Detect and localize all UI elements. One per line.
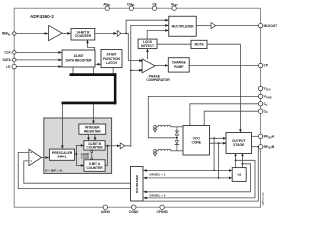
wire V_TUNE bbox=[148, 96, 258, 137]
13-bit B counter bbox=[84, 141, 105, 150]
prescaler bbox=[49, 149, 74, 160]
label DIVSEL = 1 bbox=[149, 172, 172, 177]
svg-text:VCO: VCO bbox=[266, 90, 271, 92]
pin AGND bbox=[103, 205, 107, 209]
VCO core bbox=[183, 126, 210, 156]
svg-text:STAGE: STAGE bbox=[233, 143, 245, 147]
lock detect bbox=[138, 39, 157, 49]
buffer U1 (reference input) bbox=[49, 25, 63, 40]
pin CP bbox=[258, 63, 262, 67]
wire C_C bbox=[190, 104, 259, 125]
wire CLK bbox=[16, 51, 61, 53]
thick data bus bbox=[70, 73, 117, 76]
svg-text:DETECT: DETECT bbox=[141, 44, 155, 48]
wire register stub to bus bbox=[72, 67, 74, 73]
svg-text:COUNTER: COUNTER bbox=[86, 166, 103, 170]
wire tap2 down bbox=[218, 143, 220, 178]
svg-text:COUNTER: COUNTER bbox=[75, 34, 92, 38]
varactor diodes bbox=[176, 127, 178, 131]
svg-text:CPGND: CPGND bbox=[156, 210, 168, 214]
wire register to function latch bbox=[95, 63, 100, 65]
tank top: ground, inductor L1 bbox=[154, 126, 157, 129]
svg-text:LOAD: LOAD bbox=[81, 156, 89, 160]
node R branch bbox=[125, 33, 127, 35]
feedback buffer triangle bbox=[29, 149, 42, 165]
multiplexer (bottom, vertical) bbox=[131, 167, 144, 202]
24-bit data register bbox=[62, 50, 95, 67]
svg-text:CORE: CORE bbox=[191, 141, 201, 145]
svg-text:TUNE: TUNE bbox=[266, 97, 273, 99]
divide-by-2 block bbox=[232, 168, 246, 182]
wire REF_IN to buffer bbox=[16, 33, 47, 35]
wire register to R counter (staircase) bbox=[88, 41, 95, 50]
wire prescaler out to counters bbox=[75, 145, 83, 165]
wire DATA bbox=[16, 59, 61, 61]
wire register stub 2 to bus bbox=[92, 67, 94, 73]
wire mux out 1 to feedback buffer bbox=[24, 161, 131, 183]
svg-text:MULTIPLEXER: MULTIPLEXER bbox=[172, 24, 195, 28]
svg-text:÷2: ÷2 bbox=[237, 173, 241, 177]
integer register bbox=[79, 124, 106, 134]
pin RFOUTA bbox=[258, 134, 262, 138]
pin CE bbox=[152, 6, 156, 10]
pin CPGND bbox=[160, 205, 164, 209]
svg-text:MULTIPLEXER: MULTIPLEXER bbox=[135, 175, 139, 193]
wire mux out 2 to feedback buffer bbox=[18, 152, 130, 188]
buffer (N divider out) bbox=[120, 143, 125, 149]
svg-text:REGISTER: REGISTER bbox=[84, 130, 101, 134]
pin VVCO bbox=[258, 86, 262, 90]
wire N to phase comparator bbox=[131, 69, 141, 71]
output stage bbox=[226, 133, 252, 154]
svg-text:DATA REGISTER: DATA REGISTER bbox=[65, 58, 92, 62]
mute box bbox=[191, 40, 207, 48]
wire R to phase comparator bbox=[121, 33, 141, 60]
svg-text:DD: DD bbox=[107, 5, 111, 7]
pin VTUNE bbox=[258, 94, 262, 98]
wire N buffer apex to vertical bbox=[125, 145, 131, 148]
pin DVDD bbox=[129, 6, 133, 10]
wire tap1 down bbox=[213, 138, 215, 170]
node N branch bbox=[130, 69, 132, 71]
svg-text:DD: DD bbox=[131, 5, 135, 7]
wire RF_OUT B feedback wrap bbox=[131, 147, 259, 201]
buffer (muxout) bbox=[211, 23, 216, 29]
wire div2 wrap b bbox=[145, 164, 251, 192]
wires VCO to output stage bbox=[210, 137, 226, 139]
wire buffer to R counter bbox=[62, 32, 70, 34]
5-bit A counter bbox=[84, 160, 105, 172]
wire phase comparator to charge pump bbox=[155, 65, 167, 67]
pin DATA bbox=[12, 58, 16, 62]
wire multiplexer to buffer bbox=[196, 25, 211, 27]
svg-text:COUNTER: COUNTER bbox=[86, 146, 103, 150]
pin AVDD bbox=[105, 6, 109, 10]
wire buffer to prescaler bbox=[41, 157, 48, 159]
svg-text:P/P+1: P/P+1 bbox=[58, 155, 67, 159]
svg-text:N = (BP + A): N = (BP + A) bbox=[45, 169, 62, 173]
wire phase comparator to lock detect bbox=[146, 50, 148, 59]
pin RFOUTB bbox=[258, 145, 262, 149]
wire latch stub to bus bbox=[112, 68, 114, 74]
charge pump bbox=[168, 58, 189, 72]
svg-text:04857-0-002: 04857-0-002 bbox=[263, 192, 265, 206]
tank bottom: ground, inductor L2 bbox=[154, 150, 157, 153]
wire int register to B counter (2 lines) bbox=[89, 134, 96, 139]
svg-text:MUTE: MUTE bbox=[194, 43, 204, 47]
svg-text:SET: SET bbox=[173, 5, 178, 7]
svg-text:DGND: DGND bbox=[129, 210, 139, 214]
svg-text:PUMP: PUMP bbox=[174, 65, 184, 69]
wire DIVSEL1 line b bbox=[145, 177, 231, 179]
wire charge pump to CP pin bbox=[189, 65, 258, 67]
wire R to multiplexer in1 bbox=[126, 20, 168, 33]
wire lock detect to mute bbox=[157, 43, 191, 45]
phase comparator (PFD triangle) bbox=[142, 59, 155, 73]
14-bit R counter bbox=[71, 29, 95, 41]
pin CN bbox=[258, 109, 262, 113]
pin REF_IN bbox=[12, 31, 16, 35]
svg-text:DATA: DATA bbox=[3, 58, 12, 62]
wire A counter out joins bbox=[105, 146, 107, 166]
label DIVSEL = 2 bbox=[149, 193, 172, 197]
wire RF_OUT B bbox=[252, 146, 259, 148]
wire B counter out to N buffer bbox=[105, 145, 119, 147]
wire bus to integer register bbox=[92, 104, 94, 123]
svg-text:ADF4360-2: ADF4360-2 bbox=[30, 14, 54, 19]
svg-text:AGND: AGND bbox=[101, 210, 111, 214]
24-bit function latch bbox=[101, 50, 122, 68]
wire buffer to MUXOUT pin bbox=[216, 25, 259, 27]
wire bus to prescaler bbox=[61, 104, 63, 148]
pin LE bbox=[12, 64, 16, 68]
wire DIVSEL1 line a bbox=[145, 169, 231, 171]
svg-text:DIVSEL = 2: DIVSEL = 2 bbox=[150, 194, 166, 198]
svg-text:CLK: CLK bbox=[4, 51, 11, 55]
wire mute to output stage bbox=[207, 44, 240, 131]
multiplexer (top) bbox=[169, 16, 197, 36]
pin DGND bbox=[132, 205, 136, 209]
svg-text:CE: CE bbox=[152, 2, 156, 6]
chip outline border bbox=[14, 8, 260, 207]
svg-text:DIVSEL = 1: DIVSEL = 1 bbox=[150, 173, 166, 177]
pin CC bbox=[258, 102, 262, 106]
wire N counter line up to multiplexer in2 bbox=[131, 25, 168, 146]
pin MUXOUT bbox=[258, 23, 262, 27]
wire C_N bbox=[204, 111, 258, 125]
svg-text:24-BIT: 24-BIT bbox=[74, 54, 85, 58]
wire RF_OUT A bbox=[252, 135, 259, 137]
node taps bbox=[213, 137, 215, 139]
wire lock detect to multiplexer in3 bbox=[147, 30, 167, 39]
pin CLK bbox=[12, 50, 16, 54]
svg-text:COMPARATOR: COMPARATOR bbox=[146, 78, 170, 82]
wire div2 wrap a bbox=[145, 160, 255, 198]
wire R counter out bbox=[95, 32, 116, 34]
wires divide-by-2 to output stage bbox=[236, 155, 243, 168]
svg-text:MUXOUT: MUXOUT bbox=[264, 24, 278, 28]
pin RSET bbox=[172, 6, 176, 10]
buffer (R counter output) bbox=[117, 31, 121, 37]
wire LE bbox=[16, 66, 61, 68]
svg-text:LATCH: LATCH bbox=[106, 61, 117, 65]
svg-text:LE: LE bbox=[6, 65, 10, 69]
gray N-divider box bbox=[44, 118, 112, 173]
